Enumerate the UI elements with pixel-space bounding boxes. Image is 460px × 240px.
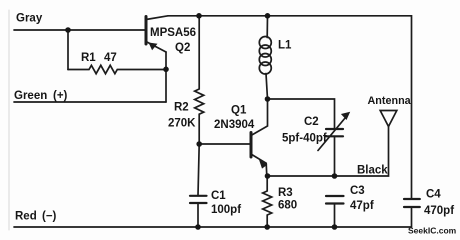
svg-text:Q2: Q2 bbox=[175, 42, 190, 54]
svg-text:Q1: Q1 bbox=[231, 105, 247, 117]
inductor L1 bbox=[259, 16, 271, 99]
antenna bbox=[380, 111, 397, 127]
svg-text:100pf: 100pf bbox=[211, 204, 241, 216]
wire Black bbox=[268, 127, 389, 177]
transistor Q1 bbox=[251, 99, 268, 176]
svg-text:270K: 270K bbox=[168, 118, 196, 130]
resistor R1 bbox=[68, 65, 166, 73]
svg-text:Gray: Gray bbox=[16, 13, 43, 25]
svg-text:Green: Green bbox=[14, 90, 47, 102]
svg-text:C2: C2 bbox=[304, 116, 319, 128]
junction dots bbox=[65, 27, 71, 33]
wire bottom rail bbox=[14, 209, 412, 228]
svg-text:C3: C3 bbox=[350, 185, 365, 197]
wire R1 drop bbox=[67, 30, 69, 70]
svg-text:Antenna: Antenna bbox=[368, 95, 412, 107]
capacitor C2 (variable) bbox=[318, 112, 350, 176]
svg-text:Red: Red bbox=[15, 211, 37, 223]
wire Green lead bbox=[14, 101, 166, 103]
wire Gray lead bbox=[14, 29, 146, 31]
wire R2 to C1 bbox=[198, 144, 199, 196]
svg-text:Black: Black bbox=[357, 165, 388, 177]
svg-text:(+): (+) bbox=[53, 90, 68, 102]
svg-text:C4: C4 bbox=[426, 189, 441, 201]
wire collector node to C2 bbox=[268, 99, 335, 129]
resistor R3 bbox=[263, 176, 272, 227]
capacitor C1 bbox=[190, 196, 207, 227]
svg-text:R1: R1 bbox=[81, 52, 96, 64]
svg-text:5pf-40pf: 5pf-40pf bbox=[282, 133, 327, 145]
transistor Q2 bbox=[146, 16, 168, 52]
svg-text:R3: R3 bbox=[278, 187, 293, 199]
wire top rail bbox=[168, 16, 412, 198]
svg-text:R2: R2 bbox=[174, 102, 189, 114]
svg-text:47pf: 47pf bbox=[350, 200, 374, 212]
wire emitter/Green riser bbox=[165, 52, 167, 102]
svg-text:470pf: 470pf bbox=[424, 205, 454, 217]
svg-text:47: 47 bbox=[104, 52, 117, 64]
svg-text:L1: L1 bbox=[278, 40, 292, 52]
resistor R2 bbox=[195, 16, 204, 144]
scan edge artifact bbox=[8, 10, 10, 230]
capacitor C3 bbox=[326, 196, 344, 227]
svg-text:680: 680 bbox=[278, 200, 297, 212]
svg-text:SeekIC.com: SeekIC.com bbox=[408, 226, 457, 236]
svg-text:MPSA56: MPSA56 bbox=[150, 27, 196, 39]
svg-text:C1: C1 bbox=[211, 190, 226, 202]
wire base Q1 bbox=[199, 143, 251, 145]
svg-text:2N3904: 2N3904 bbox=[214, 119, 255, 131]
svg-text:(−): (−) bbox=[42, 211, 57, 223]
capacitor C4 bbox=[404, 199, 420, 207]
